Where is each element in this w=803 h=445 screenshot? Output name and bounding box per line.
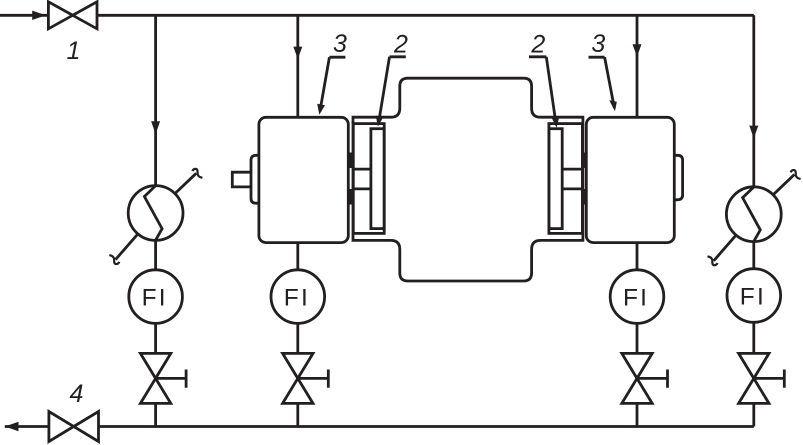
svg-text:4: 4: [70, 380, 84, 408]
label 3 (left bearing): [317, 30, 347, 115]
pipe: branch down to right bearing block: [636, 15, 639, 117]
label 3 (right bearing): [589, 30, 617, 112]
label 2 (left seal): [376, 30, 408, 126]
flow indicator FI (column 1): [129, 270, 183, 324]
arrow: down arrow on left bearing branch: [293, 47, 302, 59]
shaft collar on left bearing: [251, 155, 259, 203]
left heat exchanger (cooler): [128, 186, 183, 241]
left seal labyrinth marks: [349, 153, 354, 205]
flow indicator FI (column 3): [610, 270, 664, 324]
pipe: left HX to FI: [154, 240, 157, 271]
svg-text:2: 2: [393, 30, 408, 58]
pipe: FI to valve (column 1): [154, 324, 157, 354]
right seal crossbar: [562, 169, 582, 189]
svg-text:3: 3: [333, 30, 347, 58]
pipe: right block to FI: [636, 243, 639, 270]
throttle valve (column 4): [739, 353, 785, 403]
pipe: top header line left segment: [0, 14, 48, 17]
valve 1 (inlet block valve): [48, 2, 97, 29]
svg-text:FI: FI: [740, 284, 766, 311]
shaft stub end: [232, 172, 251, 187]
pipe: valve to bottom header (column 1): [154, 403, 157, 426]
flow indicator FI (column 2): [271, 270, 325, 324]
pipe: valve to bottom header (column 2): [296, 403, 299, 426]
label 4: [70, 380, 84, 408]
arrow: down arrow on right bearing branch: [633, 44, 642, 56]
left seal cartridge 2: outer gland: [353, 124, 384, 234]
pipe: valve to bottom header (column 4, corner): [752, 403, 755, 426]
label 2 (right seal): [529, 30, 559, 127]
pipe: FI to valve (column 4): [752, 323, 755, 354]
right heat exchanger (cooler): [726, 187, 781, 242]
throttle valve (column 1): [140, 353, 186, 403]
pipe: right HX to FI: [752, 241, 755, 269]
right seal cartridge 2: outer gland: [549, 124, 583, 234]
pipe: branch down to left heat exchanger: [154, 15, 157, 186]
right seal cartridge 2: inner sleeve: [549, 129, 562, 229]
left seal crossbar: [354, 169, 371, 189]
flow indicator FI (column 4): [727, 269, 781, 323]
arrow: outlet flow arrow: [5, 422, 19, 431]
pipe: valve to bottom header (column 3): [636, 403, 639, 426]
right seal labyrinth marks: [582, 153, 587, 205]
svg-text:FI: FI: [623, 285, 649, 312]
svg-text:FI: FI: [284, 285, 310, 312]
cooling medium line down-left (right cooler): [708, 235, 737, 265]
pipe: FI to valve (column 3): [636, 324, 639, 354]
label 1: [67, 37, 81, 65]
arrow: down arrow on left heat exchanger branch: [151, 121, 160, 134]
throttle valve (column 2): [283, 353, 329, 403]
left bearing block 3: [259, 117, 348, 242]
cooling medium line down-left (left cooler): [109, 234, 138, 264]
right bearing block 3: [586, 117, 674, 242]
cooling medium line up-right (right cooler): [773, 170, 801, 195]
svg-text:FI: FI: [142, 285, 168, 312]
pipe: FI to valve (column 2): [296, 324, 299, 354]
pipe: right header drop to right heat exchanger: [752, 15, 755, 187]
arrow: inlet flow arrow: [32, 11, 46, 20]
svg-text:1: 1: [67, 37, 81, 65]
pipe: branch down to left bearing block: [296, 15, 299, 117]
left seal cartridge 2: inner sleeve: [371, 129, 384, 229]
svg-text:2: 2: [530, 30, 545, 58]
pipe: left block to FI: [296, 243, 299, 270]
arrow: down arrow on right header drop: [749, 126, 758, 139]
pipe: top header line right segment: [97, 14, 754, 17]
throttle valve (column 3): [622, 353, 668, 403]
svg-text:3: 3: [591, 30, 605, 58]
cooling medium line up-right (left cooler): [175, 169, 203, 194]
compressor casing (cross-shaped body): [353, 78, 583, 281]
shaft collar on right bearing: [674, 155, 682, 200]
pipe: bottom header line: [5, 425, 754, 428]
valve 4 (outlet block valve): [49, 412, 99, 442]
